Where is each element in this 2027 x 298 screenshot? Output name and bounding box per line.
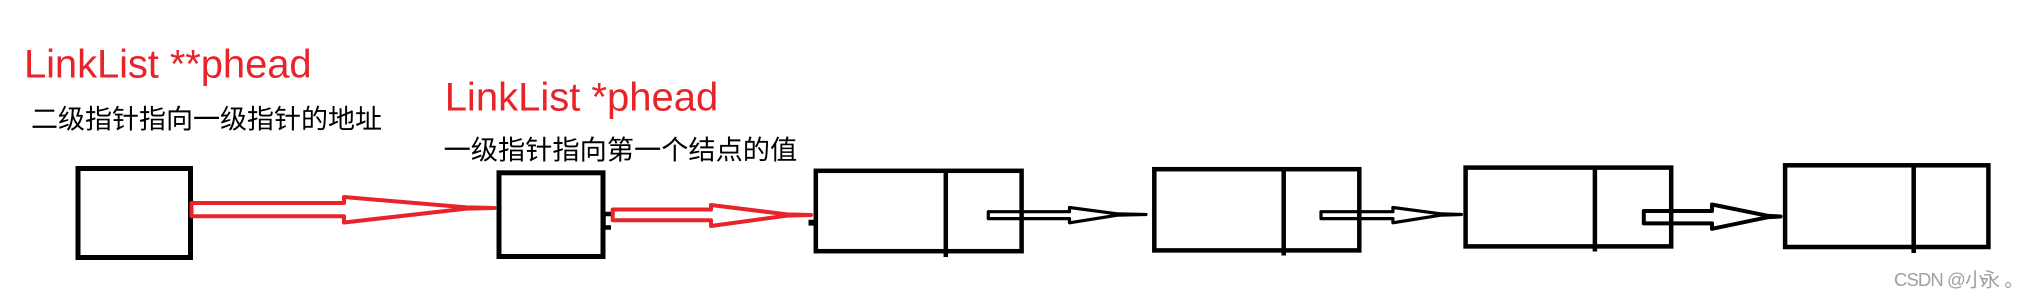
box: phead double-pointer variable (left square) [78, 169, 191, 258]
node 1 divider [944, 171, 949, 257]
red arrow: **phead -> *phead [192, 197, 495, 223]
label: caption "二级指针指向一级指针的地址" [33, 106, 381, 131]
label: caption "一级指针指向第一个结点的值" [445, 136, 796, 161]
svg-text:LinkList *phead: LinkList *phead [445, 75, 719, 119]
black bracket mark on right edge of second square [604, 214, 612, 228]
node 4 divider [1911, 165, 1916, 253]
svg-text:LinkList **phead: LinkList **phead [24, 43, 312, 87]
node 2 box [1154, 169, 1359, 250]
node 1 box [816, 171, 1022, 251]
svg-text:CSDN @: CSDN @ [1894, 269, 1965, 290]
small nub on node 1 left edge [809, 220, 815, 226]
black arrow: node2.next -> node3 [1321, 208, 1462, 223]
black arrow: node3.next -> node4 [1644, 205, 1781, 229]
node 3 divider [1593, 168, 1598, 252]
node 3 box [1466, 168, 1672, 247]
box: phead single-pointer variable (second square) [499, 173, 603, 257]
black arrow: node1.next -> node2 [988, 208, 1146, 223]
node 2 divider [1281, 169, 1286, 255]
node 4 box (last node) [1785, 165, 1988, 247]
red arrow: *phead -> node1 [613, 205, 811, 226]
